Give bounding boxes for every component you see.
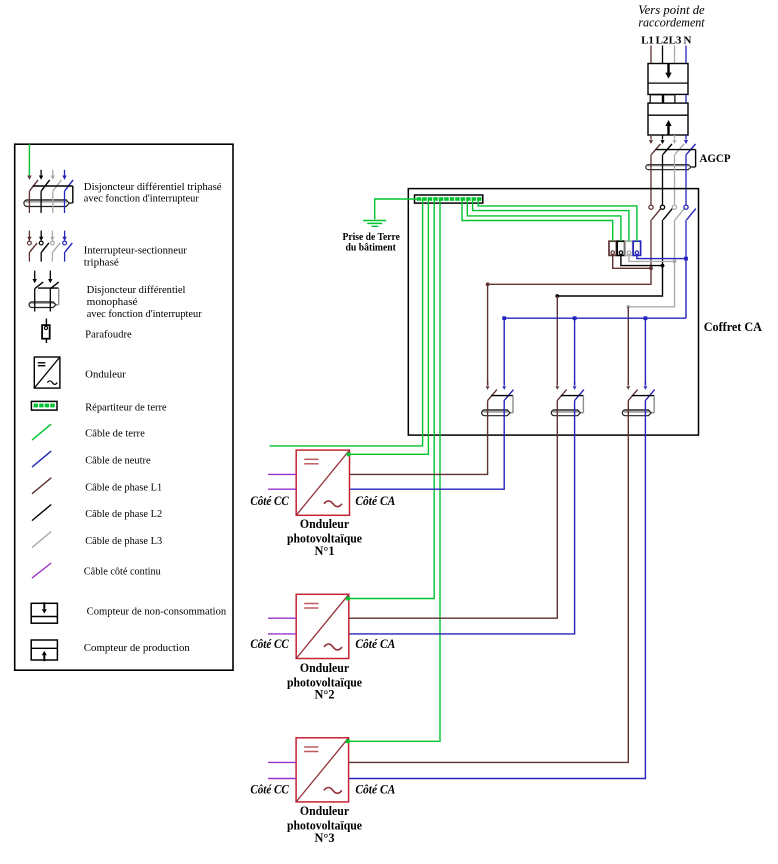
- svg-text:du bâtiment: du bâtiment: [346, 241, 397, 253]
- legend label interrupteur-sectionneur: [84, 245, 188, 268]
- terminal block: repartiteur de terre: [415, 195, 483, 203]
- svg-text:N°3: N°3: [315, 831, 335, 845]
- junction earth onduleur 3: [346, 739, 350, 743]
- wire earth to building ground: [375, 199, 418, 219]
- parafoudre PF1: [609, 241, 616, 255]
- wire earth to parafoudre PF1: [462, 199, 613, 241]
- junction N breaker2: [573, 316, 577, 320]
- breaker B3 (disjoncteur differentiel monophase): [622, 382, 654, 416]
- wire L1 AGCP to coffret switch: [650, 155, 652, 206]
- breaker B1 (disjoncteur differentiel monophase): [482, 382, 514, 416]
- svg-text:Onduleur: Onduleur: [300, 661, 350, 675]
- neutral bus wire: [504, 317, 686, 319]
- svg-text:Disjoncteur différentiel triph: Disjoncteur différentiel triphasé: [84, 182, 222, 193]
- svg-text:Câble de terre: Câble de terre: [85, 428, 145, 439]
- legend sample: cable cote continu: [32, 563, 51, 578]
- wire earth to onduleur 1: [349, 199, 429, 454]
- legend symbol: repartiteur de terre: [31, 401, 57, 410]
- wire parafoudre PF4 to phase: [637, 255, 686, 258]
- wire earth to parafoudre PF4: [478, 199, 637, 241]
- enclosure Coffret CA: [408, 189, 698, 436]
- legend sample: cable de terre: [32, 424, 51, 440]
- label onduleur 2: [287, 661, 363, 702]
- wire earth stub: [270, 199, 423, 446]
- svg-text:triphasé: triphasé: [84, 257, 119, 268]
- wire L1 from grid to meter: [650, 46, 652, 64]
- wire L1 switch to parafoudre junction: [650, 220, 652, 268]
- wire N drop to breaker 1: [503, 318, 505, 385]
- junction N breaker3: [644, 316, 648, 320]
- wire N AGCP to coffret switch: [685, 155, 687, 206]
- wire L3 switch to parafoudre junction: [674, 220, 676, 262]
- wire N switch down: [685, 220, 687, 259]
- svg-text:Compteur de non-consommation: Compteur de non-consommation: [87, 606, 227, 617]
- wire parafoudre PF3 to phase: [629, 255, 675, 261]
- legend label disjoncteur differentiel monophase: [87, 285, 202, 320]
- meter: compteur de non-consommation: [648, 64, 688, 95]
- svg-text:Onduleur: Onduleur: [85, 369, 126, 380]
- svg-text:N°2: N°2: [315, 688, 335, 702]
- wire L1 down and across to breaker 1: [488, 268, 651, 284]
- wire phase breaker3 to onduleur 3: [349, 400, 629, 762]
- svg-text:Coffret CA: Coffret CA: [704, 320, 762, 334]
- wire DC- to onduleur 1: [268, 488, 296, 490]
- svg-text:Côté CA: Côté CA: [355, 494, 395, 508]
- svg-text:N: N: [684, 35, 692, 47]
- node: Vers point de raccordement label: [638, 2, 705, 30]
- wire earth to parafoudre PF2: [467, 199, 621, 241]
- wire earth to parafoudre PF3: [473, 199, 629, 241]
- wire L2 down and across to breaker 2: [557, 266, 662, 296]
- svg-text:Côté CC: Côté CC: [250, 637, 289, 651]
- parafoudre PF2: [617, 241, 624, 255]
- wire L2 switch to parafoudre junction: [662, 220, 664, 266]
- wire phase drop to breaker 2: [556, 296, 558, 385]
- legend sample: cable de phase L2: [32, 505, 51, 521]
- wire N drop to breaker 3: [644, 318, 646, 385]
- arrowhead L2: [660, 140, 664, 144]
- wire neutral breaker1 to onduleur 1: [350, 400, 505, 489]
- wire L1 meter to AGCP: [650, 135, 652, 140]
- svg-text:avec fonction d'interrupteur: avec fonction d'interrupteur: [84, 194, 199, 205]
- wire parafoudre PF1 to phase: [613, 255, 651, 268]
- wire DC+ to onduleur 2: [268, 617, 296, 619]
- wire L2 from grid to meter: [662, 46, 664, 64]
- svg-text:Compteur de production: Compteur de production: [84, 643, 191, 654]
- svg-text:AGCP: AGCP: [700, 151, 731, 165]
- legend label disjoncteur differentiel triphase: [84, 182, 222, 205]
- meter: compteur de production: [648, 103, 688, 135]
- wire earth to onduleur 3: [349, 199, 440, 742]
- svg-text:Câble de phase L2: Câble de phase L2: [85, 509, 162, 520]
- junction earth onduleur 1: [347, 452, 351, 456]
- breaker B2 (disjoncteur differentiel monophase): [551, 382, 584, 416]
- svg-text:L1: L1: [641, 35, 654, 47]
- wire L2 meter to AGCP: [662, 135, 664, 140]
- inverter onduleur photovoltaique N3: [296, 738, 349, 802]
- wire phase drop to breaker 3: [627, 307, 629, 386]
- svg-text:Parafoudre: Parafoudre: [85, 329, 132, 340]
- wire N from grid to meter: [685, 46, 687, 64]
- inverter onduleur photovoltaique N1: [296, 450, 349, 515]
- legend symbol: onduleur: [34, 357, 60, 388]
- svg-text:monophasé: monophasé: [87, 297, 138, 308]
- wire N drop to breaker 2: [574, 318, 576, 385]
- wire phase breaker2 to onduleur 2: [349, 400, 558, 618]
- junction block 1 between meters: [650, 95, 662, 103]
- svg-text:Câble de phase L1: Câble de phase L1: [85, 482, 162, 493]
- wire L3 from grid to meter: [674, 46, 676, 64]
- wire stub N between meters: [685, 94, 687, 103]
- svg-text:Répartiteur de terre: Répartiteur de terre: [85, 402, 167, 413]
- junction N breaker1: [502, 316, 506, 320]
- wire L3 down and across to breaker 3: [628, 261, 674, 306]
- svg-text:L2: L2: [656, 35, 669, 47]
- svg-text:Onduleur: Onduleur: [300, 517, 350, 531]
- arrowhead L3: [672, 140, 676, 144]
- svg-text:Interrupteur-sectionneur: Interrupteur-sectionneur: [84, 245, 188, 256]
- wire earth to onduleur 2: [349, 199, 434, 599]
- wire DC+ to onduleur 3: [268, 761, 296, 763]
- parafoudre PF4: [633, 241, 640, 255]
- wire parafoudre PF2 to phase: [621, 255, 663, 265]
- wire stub L3 between meters: [674, 94, 676, 103]
- ground: prise de terre du batiment: [363, 221, 386, 227]
- junction L3 drop: [626, 305, 630, 309]
- junction N-parafoudre: [684, 257, 688, 261]
- legend symbol: disjoncteur differentiel triphase: [24, 144, 73, 213]
- junction L1 drop: [486, 282, 490, 286]
- junction earth onduleur 2: [346, 597, 350, 601]
- wire stub L2 between meters: [662, 94, 664, 103]
- junction L3-parafoudre: [673, 260, 677, 264]
- svg-text:Onduleur: Onduleur: [300, 804, 350, 818]
- wire L3 AGCP to coffret switch: [674, 155, 676, 206]
- wire L2 AGCP to coffret switch: [662, 155, 664, 206]
- wire L1 drop to breaker 1: [487, 284, 489, 385]
- wire DC- to onduleur 3: [268, 778, 296, 780]
- wire L3 meter to AGCP: [674, 135, 676, 140]
- svg-text:Côté CC: Côté CC: [250, 494, 289, 508]
- legend symbol: parafoudre: [42, 319, 50, 344]
- legend box: [15, 144, 233, 670]
- wire neutral breaker2 to onduleur 2: [349, 400, 575, 634]
- svg-text:Côté CA: Côté CA: [355, 637, 395, 651]
- svg-text:raccordement: raccordement: [638, 14, 705, 29]
- inverter onduleur photovoltaique N2: [296, 594, 349, 658]
- legend symbol: compteur de non-consommation: [31, 602, 57, 623]
- label onduleur 3: [287, 804, 363, 845]
- junction L2-parafoudre: [661, 264, 665, 268]
- arrowhead N: [684, 140, 688, 144]
- legend symbol: interrupteur-sectionneur triphase: [27, 231, 72, 262]
- legend sample: cable de neutre: [32, 451, 51, 467]
- legend symbol: compteur de production: [31, 640, 57, 661]
- wire N down to neutral bus: [685, 259, 687, 319]
- svg-text:Câble de phase L3: Câble de phase L3: [85, 536, 162, 547]
- junction block 2 between meters: [664, 95, 675, 103]
- svg-text:Disjoncteur différentiel: Disjoncteur différentiel: [87, 285, 186, 296]
- junction L1-parafoudre: [649, 266, 653, 270]
- wire DC+ to onduleur 1: [268, 473, 296, 475]
- legend sample: cable de phase L1: [32, 478, 51, 494]
- svg-text:Câble de neutre: Câble de neutre: [85, 455, 151, 466]
- svg-text:N°1: N°1: [315, 544, 335, 558]
- junction L2 drop: [555, 294, 559, 298]
- svg-text:avec fonction d'interrupteur: avec fonction d'interrupteur: [87, 309, 202, 320]
- label onduleur 1: [287, 517, 363, 558]
- switch: interrupteur-sectionneur tetrapolaire in coffret: [649, 205, 696, 220]
- label Prise de Terre du batiment: [343, 231, 401, 254]
- wire DC- to onduleur 2: [268, 633, 296, 635]
- legend symbol: disjoncteur differentiel monophase: [29, 271, 59, 312]
- wire stub L1 between meters: [650, 94, 652, 103]
- wire N meter to AGCP: [685, 135, 687, 140]
- svg-text:Côté CC: Côté CC: [250, 783, 289, 797]
- svg-text:L3: L3: [669, 35, 682, 47]
- parafoudre PF3: [625, 241, 632, 255]
- wire phase breaker1 to onduleur 1: [350, 400, 488, 474]
- svg-text:Côté CA: Côté CA: [355, 783, 395, 797]
- wire neutral breaker3 to onduleur 3: [349, 400, 646, 778]
- svg-text:Câble côté continu: Câble côté continu: [84, 566, 162, 577]
- breaker AGCP (disjoncteur de branchement): [646, 144, 696, 170]
- arrowhead L1: [649, 140, 653, 144]
- legend sample: cable de phase L3: [32, 532, 51, 548]
